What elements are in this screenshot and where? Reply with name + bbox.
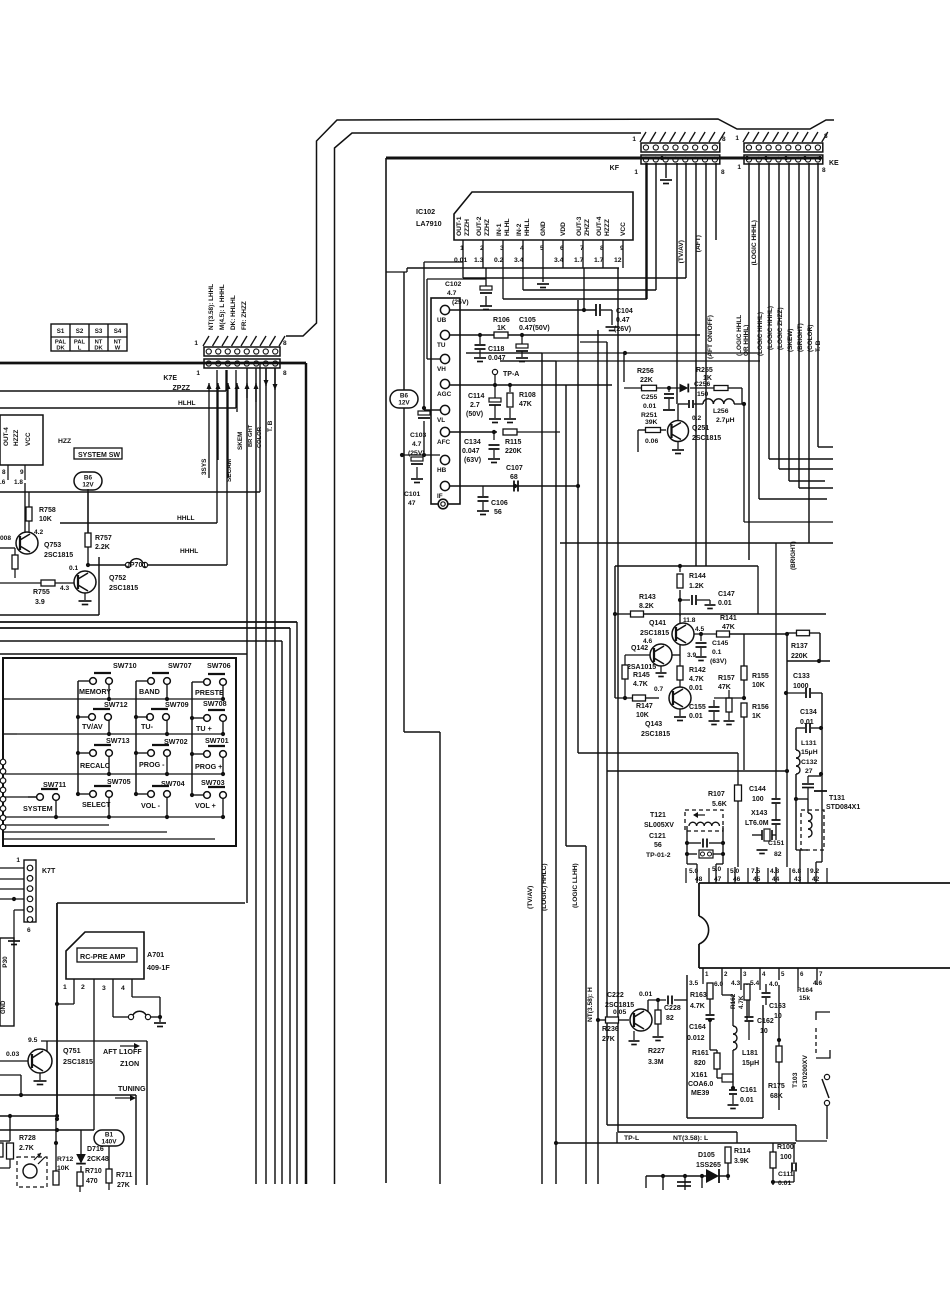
svg-text:NT(3.58): L: NT(3.58): L (673, 1135, 708, 1142)
svg-text:M(4.5): L HHHL: M(4.5): L HHHL (219, 284, 226, 330)
svg-text:27K: 27K (117, 1182, 130, 1189)
svg-text:45: 45 (753, 876, 761, 883)
svg-text:TV/AV: TV/AV (82, 722, 103, 731)
svg-text:(BRIGHT): (BRIGHT) (797, 323, 804, 352)
svg-text:4: 4 (520, 245, 524, 252)
svg-text:C144: C144 (749, 786, 766, 793)
svg-text:4.3: 4.3 (731, 980, 740, 987)
svg-text:47K: 47K (519, 401, 532, 408)
svg-text:HHLL: HHLL (524, 218, 531, 236)
svg-text:(LOGIC HHHL): (LOGIC HHHL) (751, 220, 758, 265)
svg-text:ZZHZ: ZZHZ (484, 219, 491, 236)
svg-text:SW701: SW701 (205, 736, 229, 745)
svg-text:3.9: 3.9 (687, 652, 696, 659)
svg-text:C103: C103 (410, 432, 426, 439)
svg-text:1: 1 (735, 135, 739, 142)
svg-text:10K: 10K (39, 516, 52, 523)
svg-text:VCC: VCC (620, 222, 627, 236)
svg-text:2SC1815: 2SC1815 (44, 552, 73, 559)
svg-text:1.7: 1.7 (594, 257, 604, 264)
svg-text:C162: C162 (757, 1018, 774, 1025)
svg-text:27: 27 (805, 768, 813, 775)
svg-text:TP-L: TP-L (624, 1135, 639, 1142)
svg-text:L256: L256 (713, 408, 729, 415)
svg-text:0.047: 0.047 (462, 448, 480, 455)
svg-text:1.3: 1.3 (474, 257, 484, 264)
svg-text:GND: GND (540, 221, 547, 236)
svg-text:15μH: 15μH (801, 749, 818, 756)
svg-text:10K: 10K (752, 682, 765, 689)
svg-text:VOL -: VOL - (141, 801, 161, 810)
svg-text:HZZZ: HZZZ (13, 430, 20, 446)
svg-text:5.0: 5.0 (712, 866, 721, 873)
svg-text:39K: 39K (645, 419, 658, 426)
svg-text:8: 8 (283, 370, 287, 377)
svg-text:4.8: 4.8 (770, 868, 779, 875)
svg-text:22K: 22K (640, 377, 653, 384)
svg-text:SL005XV: SL005XV (644, 822, 674, 829)
svg-text:Q752: Q752 (109, 575, 126, 582)
svg-text:IN-2: IN-2 (516, 223, 523, 236)
svg-text:220K: 220K (791, 653, 808, 660)
svg-text:SW702: SW702 (164, 737, 188, 746)
svg-text:2.7K: 2.7K (19, 1145, 34, 1152)
svg-text:R163: R163 (690, 992, 707, 999)
svg-text:12V: 12V (398, 400, 410, 407)
svg-text:SW705: SW705 (107, 777, 131, 786)
svg-text:R143: R143 (639, 594, 656, 601)
svg-text:1: 1 (196, 370, 200, 377)
svg-text:(COLOR): (COLOR) (807, 325, 814, 352)
svg-text:0.06: 0.06 (645, 438, 658, 445)
svg-text:R157: R157 (718, 675, 735, 682)
svg-text:C163: C163 (769, 1003, 786, 1010)
svg-text:Z1ON: Z1ON (120, 1059, 139, 1068)
svg-text:0.01: 0.01 (689, 713, 703, 720)
svg-text:SW713: SW713 (106, 736, 130, 745)
svg-text:DK: DK (94, 346, 103, 352)
svg-text:S4: S4 (114, 328, 122, 335)
svg-text:(BRIGHT): (BRIGHT) (790, 541, 797, 570)
svg-text:UB: UB (437, 317, 447, 324)
svg-text:4.7K: 4.7K (690, 1003, 705, 1010)
svg-text:R161: R161 (692, 1050, 709, 1057)
svg-text:R115: R115 (505, 439, 521, 446)
svg-text:R142: R142 (689, 667, 706, 674)
svg-text:C106: C106 (491, 500, 508, 507)
svg-text:10: 10 (774, 1013, 782, 1020)
svg-text:3: 3 (743, 971, 747, 978)
svg-text:TU-: TU- (141, 722, 154, 731)
svg-text:100: 100 (780, 1154, 792, 1161)
svg-text:Q142: Q142 (631, 645, 648, 652)
svg-text:7: 7 (819, 971, 823, 978)
svg-text:S1: S1 (57, 328, 65, 335)
svg-text:56: 56 (654, 842, 662, 849)
svg-text:C155: C155 (689, 704, 706, 711)
svg-text:2: 2 (724, 971, 728, 978)
svg-text:NT(3.58): LHHL: NT(3.58): LHHL (208, 284, 215, 330)
svg-text:1: 1 (705, 971, 709, 978)
svg-text:R755: R755 (33, 589, 50, 596)
svg-text:4.6: 4.6 (643, 638, 652, 645)
svg-text:8: 8 (283, 340, 287, 347)
svg-text:COA6.0: COA6.0 (688, 1081, 713, 1088)
svg-text:12: 12 (614, 257, 622, 264)
svg-text:W: W (115, 346, 121, 352)
svg-text:1: 1 (194, 340, 198, 347)
svg-text:1: 1 (16, 857, 20, 864)
svg-text:SELECT: SELECT (82, 800, 111, 809)
svg-text:SW709: SW709 (165, 700, 189, 709)
svg-text:PROG +: PROG + (195, 762, 222, 771)
svg-text:2SC1815: 2SC1815 (605, 1002, 634, 1009)
svg-text:4.2: 4.2 (34, 529, 43, 536)
svg-text:4.7K: 4.7K (633, 681, 648, 688)
svg-text:OUT-2: OUT-2 (476, 216, 483, 236)
svg-text:Q751: Q751 (63, 1046, 81, 1055)
svg-text:56: 56 (494, 509, 502, 516)
svg-text:2SC1815: 2SC1815 (641, 731, 670, 738)
svg-text:OR HHHL): OR HHHL) (743, 325, 750, 356)
svg-text:1.2K: 1.2K (689, 583, 704, 590)
svg-text:43: 43 (794, 876, 802, 883)
svg-text:OUT-3: OUT-3 (576, 216, 583, 236)
svg-text:DK: HHLHL: DK: HHLHL (230, 295, 237, 330)
svg-text:R256: R256 (637, 368, 654, 375)
svg-text:R710: R710 (85, 1168, 102, 1175)
svg-text:KE: KE (829, 160, 839, 167)
svg-text:140V: 140V (102, 1139, 118, 1146)
svg-text:(LOGIC HHHL): (LOGIC HHHL) (767, 306, 774, 350)
svg-text:0.012: 0.012 (687, 1035, 705, 1042)
svg-text:SYSTEM: SYSTEM (23, 804, 53, 813)
svg-text:27K: 27K (602, 1036, 615, 1043)
svg-text:15k: 15k (799, 995, 810, 1002)
svg-text:0.7: 0.7 (654, 686, 663, 693)
svg-text:(TV/AV): (TV/AV) (527, 886, 534, 909)
svg-text:.6: .6 (0, 479, 6, 486)
svg-text:4.5: 4.5 (695, 626, 704, 633)
svg-text:5.0: 5.0 (689, 868, 698, 875)
svg-text:T. B: T. B (815, 340, 822, 352)
svg-text:STD084X1: STD084X1 (826, 804, 860, 811)
svg-text:R758: R758 (39, 507, 56, 514)
svg-text:4.7: 4.7 (447, 290, 457, 297)
svg-text:R107: R107 (708, 791, 725, 798)
svg-text:L131: L131 (801, 740, 817, 747)
svg-text:0.01: 0.01 (643, 403, 656, 410)
svg-text:R155: R155 (752, 673, 769, 680)
svg-text:47: 47 (408, 500, 416, 507)
svg-text:TU +: TU + (196, 724, 212, 733)
svg-text:C161: C161 (740, 1087, 757, 1094)
svg-text:R106: R106 (493, 317, 510, 324)
svg-text:8: 8 (824, 133, 828, 140)
svg-text:0.01: 0.01 (740, 1097, 754, 1104)
svg-text:VDD: VDD (560, 222, 567, 236)
svg-text:SW703: SW703 (201, 778, 225, 787)
svg-text:9: 9 (20, 469, 24, 476)
svg-text:15μH: 15μH (742, 1060, 759, 1067)
svg-text:(LOGIC HHLL: (LOGIC HHLL (736, 315, 743, 356)
svg-text:R251: R251 (641, 412, 657, 419)
svg-text:R711: R711 (116, 1172, 132, 1179)
svg-text:C134: C134 (464, 439, 481, 446)
svg-text:1: 1 (63, 984, 67, 991)
svg-text:T131: T131 (829, 795, 845, 802)
svg-text:D105: D105 (698, 1152, 715, 1159)
svg-text:1K: 1K (497, 325, 506, 332)
svg-text:HLHL: HLHL (178, 400, 196, 407)
svg-text:C222: C222 (607, 992, 624, 999)
svg-text:5.4: 5.4 (750, 980, 759, 987)
svg-text:5: 5 (540, 245, 544, 252)
svg-text:S3: S3 (95, 328, 103, 335)
svg-text:AGC: AGC (437, 391, 452, 398)
svg-text:HZZ: HZZ (58, 438, 71, 445)
svg-text:6: 6 (27, 927, 31, 934)
svg-text:T. B: T. B (267, 420, 274, 432)
svg-text:Q753: Q753 (44, 542, 61, 549)
svg-text:SW711: SW711 (43, 780, 66, 789)
svg-text:C133: C133 (793, 673, 810, 680)
svg-text:8.2K: 8.2K (639, 603, 654, 610)
svg-text:R236: R236 (602, 1026, 619, 1033)
svg-text:RC-PRE AMP: RC-PRE AMP (80, 952, 125, 961)
svg-text:1.7: 1.7 (574, 257, 584, 264)
svg-text:SYSTEM SW: SYSTEM SW (78, 452, 120, 459)
svg-text:Q251: Q251 (692, 425, 709, 432)
svg-text:8: 8 (722, 136, 726, 143)
svg-text:ST0200XV: ST0200XV (802, 1055, 809, 1088)
svg-text:1SS265: 1SS265 (696, 1162, 721, 1169)
svg-text:(TV/AV): (TV/AV) (678, 240, 685, 263)
svg-text:1.8: 1.8 (14, 479, 23, 486)
svg-text:R114: R114 (734, 1148, 750, 1155)
svg-text:1: 1 (632, 136, 636, 143)
svg-text:KF: KF (610, 165, 620, 172)
svg-text:HZZZ: HZZZ (604, 219, 611, 236)
svg-text:4.3: 4.3 (60, 585, 69, 592)
svg-text:2SC1815: 2SC1815 (692, 435, 721, 442)
svg-text:(LOGIC HHHL): (LOGIC HHHL) (757, 312, 764, 356)
svg-text:R712: R712 (57, 1156, 73, 1163)
svg-text:409-1F: 409-1F (147, 963, 170, 972)
svg-text:R175: R175 (768, 1083, 785, 1090)
svg-text:(LOGIC ZHZZ): (LOGIC ZHZZ) (777, 307, 784, 350)
svg-text:2CK48: 2CK48 (87, 1156, 109, 1163)
svg-text:ZHZZ: ZHZZ (584, 219, 591, 236)
svg-text:B1: B1 (105, 1132, 114, 1139)
svg-text:10K: 10K (636, 712, 649, 719)
svg-text:220K: 220K (505, 448, 522, 455)
svg-text:TUNING: TUNING (118, 1084, 146, 1093)
svg-text:2.2K: 2.2K (95, 544, 110, 551)
svg-text:VL: VL (437, 417, 445, 424)
svg-text:0.05: 0.05 (613, 1009, 626, 1016)
svg-text:0.1: 0.1 (69, 565, 78, 572)
svg-text:T103: T103 (792, 1072, 799, 1088)
svg-text:470: 470 (86, 1178, 98, 1185)
svg-text:C114: C114 (468, 393, 484, 400)
svg-text:5.6K: 5.6K (712, 801, 727, 808)
svg-text:HHLL: HHLL (177, 515, 195, 522)
svg-text:VCC: VCC (25, 432, 32, 446)
svg-text:Q141: Q141 (649, 620, 666, 627)
svg-text:2: 2 (480, 245, 484, 252)
svg-text:B6: B6 (400, 393, 409, 400)
svg-text:3: 3 (500, 245, 504, 252)
svg-text:SKEM: SKEM (237, 432, 244, 450)
svg-text:68: 68 (510, 474, 518, 481)
svg-text:PRESTE: PRESTE (195, 688, 224, 697)
svg-text:9.2: 9.2 (810, 868, 819, 875)
svg-text:(AFT): (AFT) (695, 235, 702, 252)
svg-text:8: 8 (600, 245, 604, 252)
svg-text:7.5: 7.5 (751, 868, 760, 875)
svg-text:0.2: 0.2 (494, 257, 504, 264)
svg-text:47K: 47K (718, 684, 731, 691)
svg-text:MEMORY: MEMORY (79, 687, 111, 696)
svg-text:T121: T121 (650, 812, 666, 819)
svg-text:48: 48 (695, 876, 703, 883)
svg-text:C255: C255 (641, 394, 657, 401)
svg-text:C134: C134 (800, 709, 817, 716)
svg-text:R164: R164 (797, 987, 813, 994)
svg-text:5: 5 (781, 971, 785, 978)
svg-text:C102: C102 (445, 281, 461, 288)
svg-text:4.7K: 4.7K (689, 676, 704, 683)
svg-text:R137: R137 (791, 643, 808, 650)
svg-text:82: 82 (774, 851, 782, 858)
svg-text:7: 7 (580, 245, 584, 252)
svg-text:PROG -: PROG - (139, 760, 165, 769)
svg-text:2.7: 2.7 (470, 402, 480, 409)
svg-text:46: 46 (733, 876, 741, 883)
svg-text:R144: R144 (689, 573, 706, 580)
svg-text:C101: C101 (404, 491, 420, 498)
svg-text:C105: C105 (519, 317, 536, 324)
svg-text:X143: X143 (751, 810, 767, 817)
svg-text:BAND: BAND (139, 687, 160, 696)
svg-text:3.4: 3.4 (554, 257, 564, 264)
svg-text:R156: R156 (752, 704, 769, 711)
svg-text:0.01: 0.01 (689, 685, 703, 692)
svg-text:C107: C107 (506, 465, 523, 472)
svg-text:R147: R147 (636, 703, 653, 710)
svg-text:R141: R141 (720, 615, 737, 622)
svg-text:SW706: SW706 (207, 661, 231, 670)
svg-text:OUT-4: OUT-4 (596, 216, 603, 236)
svg-text:44: 44 (772, 876, 780, 883)
svg-text:SW704: SW704 (161, 779, 185, 788)
svg-text:R757: R757 (95, 535, 112, 542)
svg-text:R227: R227 (648, 1048, 665, 1055)
svg-text:008: 008 (0, 535, 11, 542)
svg-text:1: 1 (737, 164, 741, 171)
svg-text:0.47(50V): 0.47(50V) (519, 325, 550, 332)
svg-text:GND: GND (1, 1000, 7, 1014)
svg-text:0.01: 0.01 (778, 1180, 791, 1187)
svg-text:0.01: 0.01 (639, 991, 652, 998)
svg-text:3.9: 3.9 (35, 599, 45, 606)
svg-text:SW712: SW712 (104, 700, 128, 709)
svg-text:HB: HB (437, 467, 447, 474)
svg-text:VOL +: VOL + (195, 801, 216, 810)
svg-text:C151: C151 (768, 840, 784, 847)
svg-text:R728: R728 (19, 1135, 36, 1142)
svg-text:2: 2 (81, 984, 85, 991)
svg-text:D716: D716 (87, 1146, 104, 1153)
svg-text:B6: B6 (84, 475, 93, 482)
svg-text:(26V): (26V) (614, 326, 631, 333)
svg-text:3.9K: 3.9K (734, 1158, 749, 1165)
svg-text:C118: C118 (488, 346, 504, 353)
svg-text:11.8: 11.8 (683, 617, 696, 624)
svg-text:K7E: K7E (163, 375, 177, 382)
svg-text:AFC: AFC (437, 439, 451, 446)
svg-text:3.5: 3.5 (689, 980, 698, 987)
svg-text:6: 6 (800, 971, 804, 978)
svg-text:(63V): (63V) (464, 457, 481, 464)
svg-text:3.3M: 3.3M (648, 1059, 664, 1066)
svg-text:3SYS: 3SYS (201, 458, 208, 475)
svg-text:C121: C121 (649, 833, 666, 840)
svg-text:IN-1: IN-1 (496, 223, 503, 236)
svg-text:C145: C145 (712, 640, 728, 647)
svg-text:TU: TU (437, 342, 446, 349)
svg-text:8: 8 (2, 469, 6, 476)
svg-text:47: 47 (714, 876, 722, 883)
svg-text:68K: 68K (770, 1093, 783, 1100)
svg-text:47K: 47K (722, 624, 735, 631)
svg-text:X161: X161 (691, 1072, 707, 1079)
svg-text:6: 6 (560, 245, 564, 252)
svg-text:1: 1 (634, 169, 638, 176)
svg-text:FR: ZHZZ: FR: ZHZZ (241, 301, 248, 330)
svg-text:R255: R255 (696, 367, 713, 374)
svg-text:1K: 1K (752, 713, 761, 720)
svg-text:8: 8 (721, 169, 725, 176)
svg-text:ME39: ME39 (691, 1090, 709, 1097)
svg-text:L: L (78, 346, 82, 352)
svg-text:(LOGIC LLHH): (LOGIC LLHH) (572, 863, 579, 908)
svg-text:LA7910: LA7910 (416, 219, 442, 228)
svg-text:6.8: 6.8 (792, 868, 801, 875)
svg-text:AFT L1OFF: AFT L1OFF (103, 1047, 142, 1056)
svg-text:RECALC: RECALC (80, 761, 110, 770)
svg-text:TP-01-2: TP-01-2 (646, 852, 671, 859)
svg-text:0.2: 0.2 (692, 415, 701, 422)
svg-text:C147: C147 (718, 591, 735, 598)
svg-text:2.7μH: 2.7μH (716, 417, 735, 424)
svg-text:C111: C111 (778, 1171, 794, 1178)
svg-text:0.01: 0.01 (454, 257, 467, 264)
svg-text:R100: R100 (777, 1144, 794, 1151)
svg-text:NT(3.58): H: NT(3.58): H (587, 987, 594, 1022)
svg-text:2SA1015: 2SA1015 (627, 664, 656, 671)
svg-text:150: 150 (697, 391, 709, 398)
svg-text:(SKEW): (SKEW) (787, 329, 794, 352)
svg-text:C228: C228 (664, 1005, 681, 1012)
svg-text:0.03: 0.03 (6, 1051, 19, 1058)
svg-text:4.0: 4.0 (769, 981, 778, 988)
svg-text:L181: L181 (742, 1050, 758, 1057)
svg-text:2SC1815: 2SC1815 (63, 1057, 93, 1066)
svg-text:R108: R108 (519, 392, 536, 399)
svg-text:100: 100 (752, 796, 764, 803)
